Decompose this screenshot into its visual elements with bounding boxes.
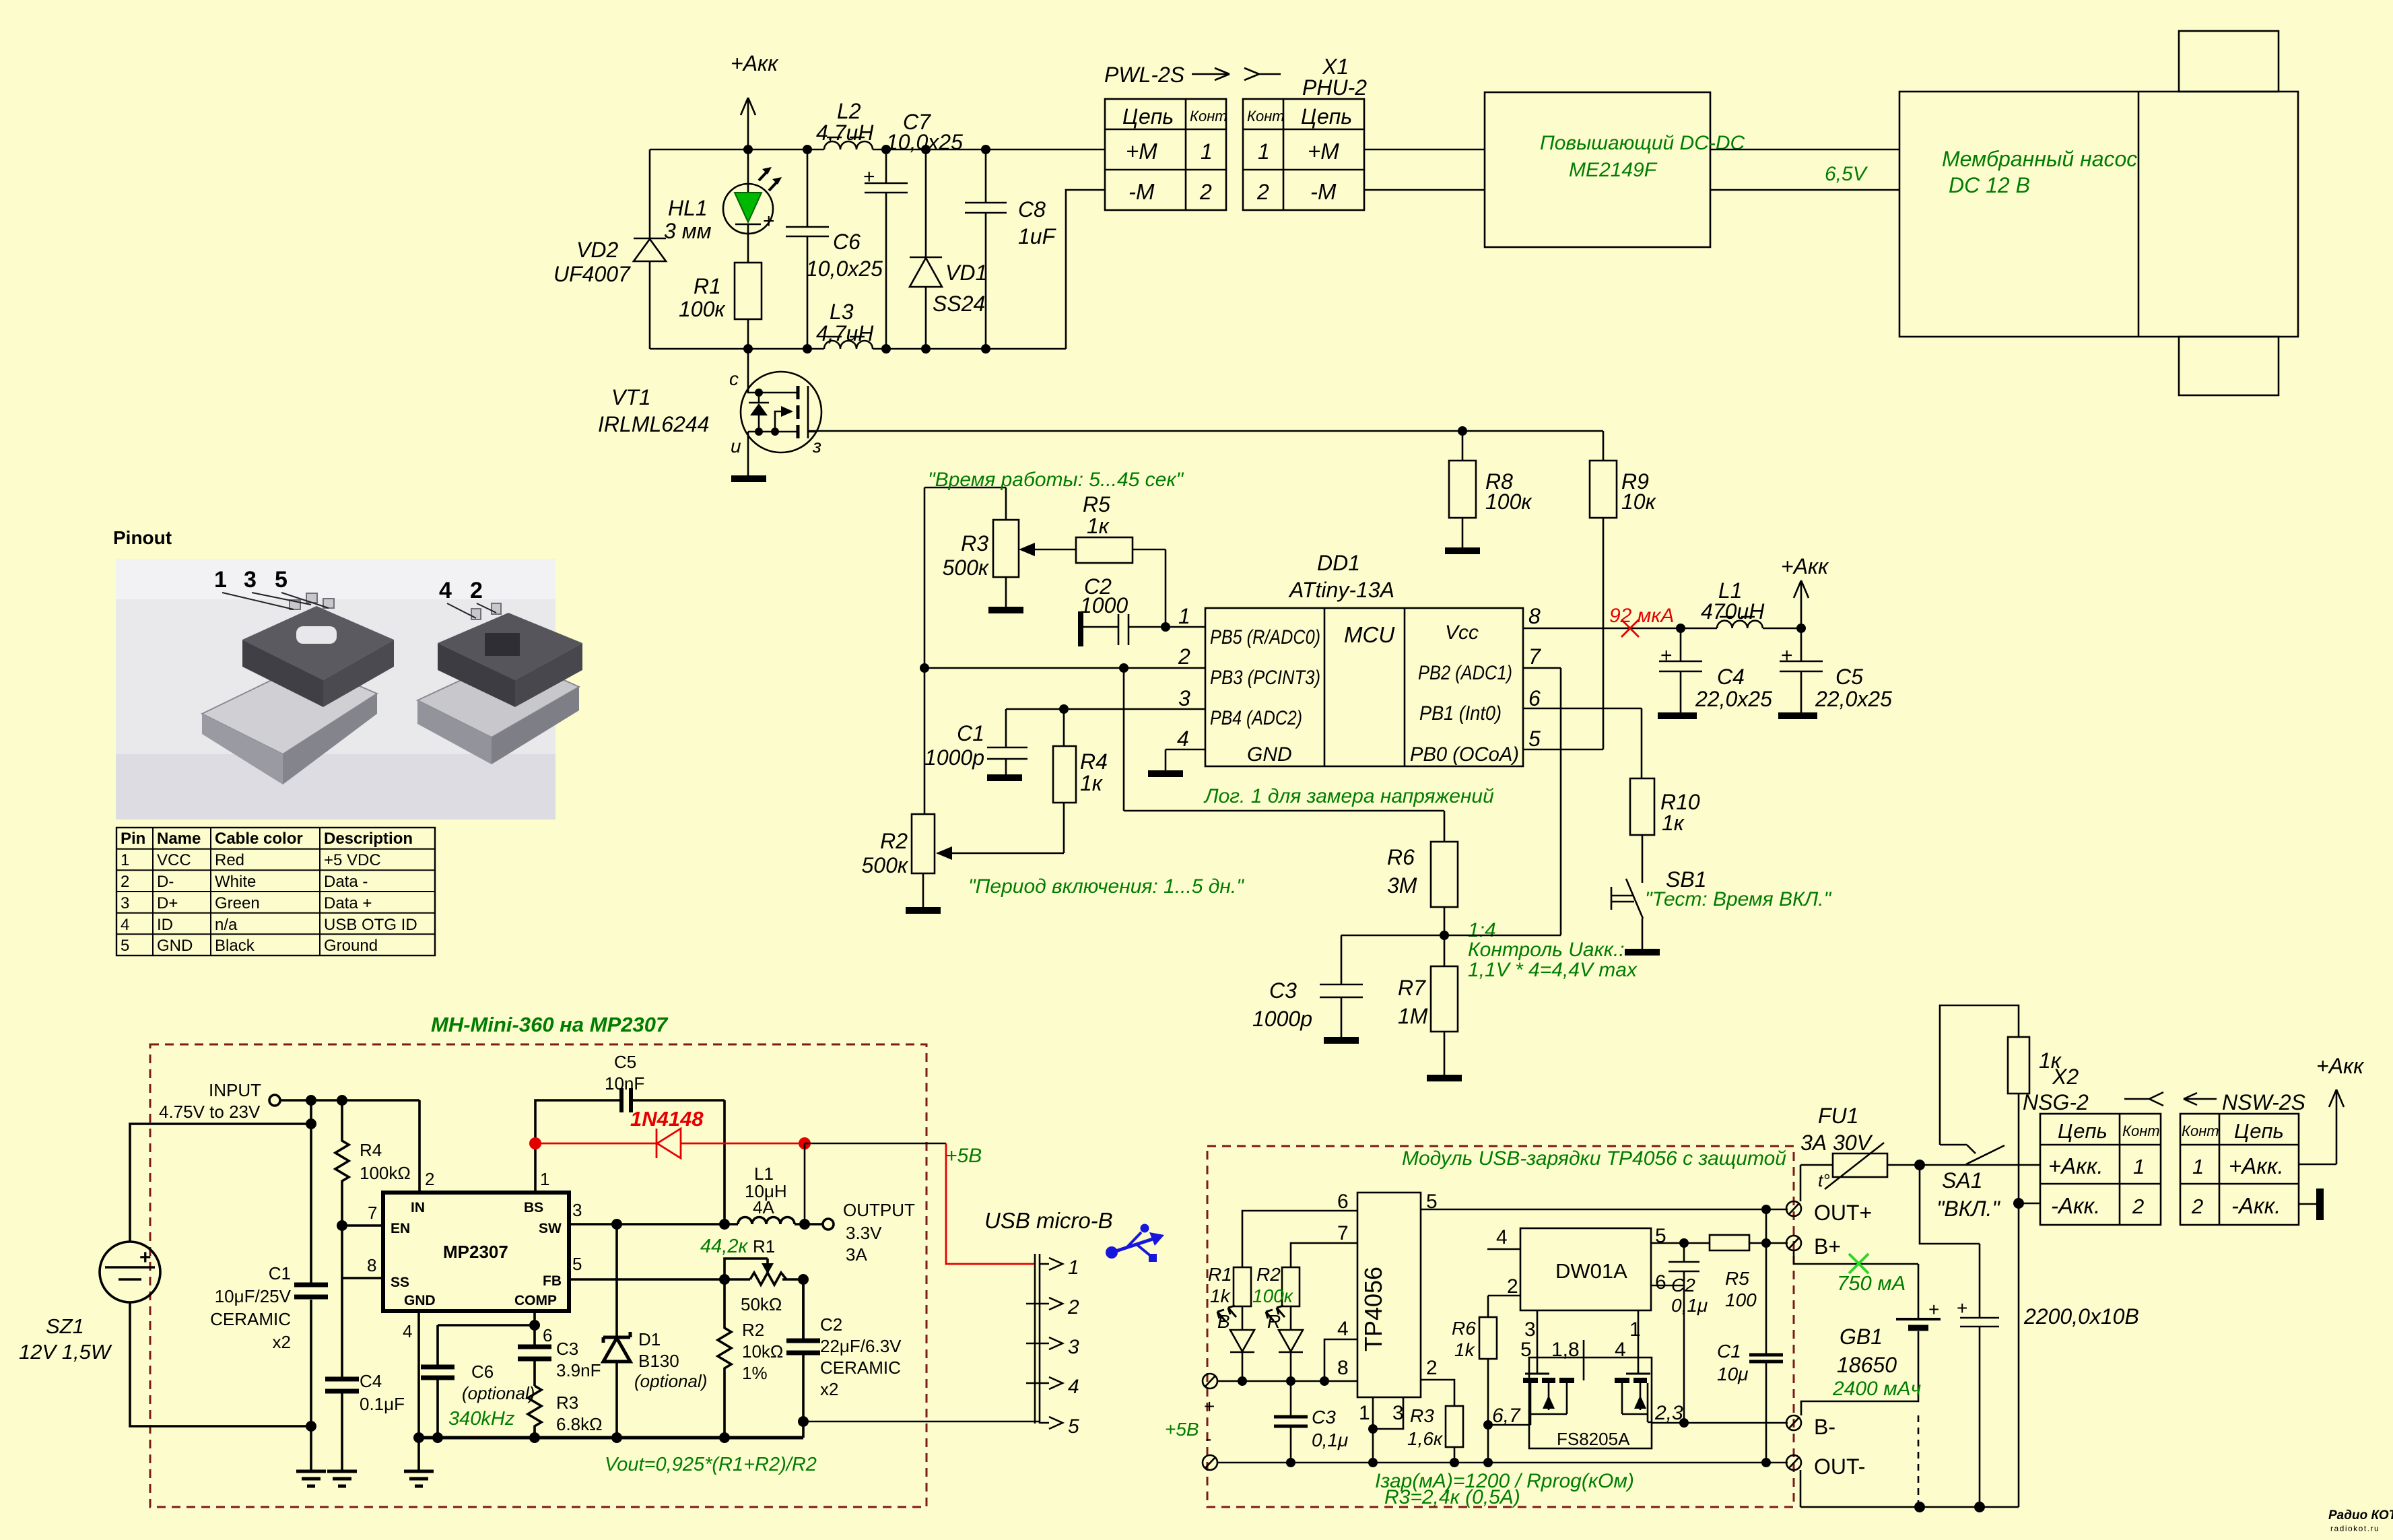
terminal OUT- — [1786, 1454, 1865, 1479]
capacitor C5 22,0x25 — [1780, 628, 1892, 712]
wire MCU pin1 — [1128, 626, 1205, 628]
svg-text:R2: R2 — [1256, 1264, 1281, 1285]
wire pin7 to R2 — [1291, 1243, 1357, 1267]
ground GND pin (IEEE) — [404, 1471, 434, 1486]
potentiometer R2 500k — [862, 814, 935, 907]
svg-text:INPUT: INPUT — [209, 1080, 261, 1100]
svg-text:4: 4 — [1337, 1318, 1349, 1340]
svg-text:з: з — [812, 436, 821, 457]
svg-text:PB2 (ADC1): PB2 (ADC1) — [1418, 662, 1512, 684]
svg-text:1000p: 1000p — [1252, 1007, 1312, 1031]
svg-text:R1: R1 — [753, 1236, 775, 1257]
svg-text:R7: R7 — [1398, 976, 1426, 1000]
svg-text:Цепь: Цепь — [1301, 104, 1352, 129]
resistor R1 1k — [1208, 1264, 1251, 1306]
svg-text:Повышающий DC-DC: Повышающий DC-DC — [1540, 132, 1745, 154]
FS8205A box — [1529, 1358, 1652, 1449]
svg-text:+5B: +5B — [945, 1145, 982, 1167]
TP4056 chip — [1337, 1191, 1438, 1424]
svg-text:ME2149F: ME2149F — [1569, 159, 1658, 181]
svg-text:X2: X2 — [2052, 1065, 2079, 1089]
svg-text:10μF/25V: 10μF/25V — [215, 1286, 292, 1306]
dashed border MP2307 module — [150, 1044, 926, 1507]
resistor R8 100k — [1449, 426, 1532, 547]
svg-text:Vcc: Vcc — [1445, 622, 1479, 644]
net +Akk (top left power arrow) — [731, 51, 779, 149]
svg-text:Name: Name — [157, 830, 201, 848]
svg-text:ATtiny-13A: ATtiny-13A — [1288, 578, 1394, 602]
svg-text:2: 2 — [2132, 1195, 2144, 1218]
svg-text:Конт: Конт — [1190, 108, 1227, 125]
svg-text:6,5V: 6,5V — [1825, 163, 1868, 185]
svg-text:VD2: VD2 — [576, 238, 618, 262]
resistor R2 10k zigzag — [718, 1279, 783, 1438]
wire OUT+ up to fuse — [1800, 1165, 1802, 1201]
svg-text:2: 2 — [1256, 180, 1269, 204]
svg-text:3М: 3М — [1387, 873, 1417, 898]
inductor L2 4,7uH — [816, 99, 874, 149]
svg-text:6: 6 — [1337, 1191, 1349, 1213]
svg-text:radiokot.ru: radiokot.ru — [2330, 1524, 2380, 1533]
svg-text:GND: GND — [404, 1293, 436, 1308]
ground C1 — [987, 774, 1022, 781]
svg-text:Black: Black — [215, 937, 255, 955]
svg-text:PB3 (PCINT3): PB3 (PCINT3) — [1210, 667, 1320, 689]
svg-text:1: 1 — [1201, 139, 1213, 164]
svg-text:CERAMIC: CERAMIC — [820, 1358, 901, 1378]
svg-text:SS: SS — [391, 1275, 409, 1290]
svg-text:R3=2,4к (0,5А): R3=2,4к (0,5А) — [1384, 1486, 1520, 1508]
svg-text:500к: 500к — [943, 556, 990, 580]
svg-text:OUTPUT: OUTPUT — [843, 1200, 915, 1220]
wires pins 1,3 — [1373, 1397, 1403, 1463]
svg-text:OUT-: OUT- — [1814, 1454, 1865, 1479]
svg-text:+Акк.: +Акк. — [2229, 1153, 2284, 1178]
svg-text:1: 1 — [540, 1169, 549, 1189]
wire pin6 to R1 — [1242, 1211, 1357, 1267]
svg-text:R6: R6 — [1387, 845, 1415, 869]
pinout photo background — [116, 559, 582, 819]
potentiometer R3 500k — [943, 488, 1077, 607]
svg-text:Мембранный насос: Мембранный насос — [1942, 147, 2137, 171]
ground R7 — [1427, 1075, 1462, 1081]
svg-text:1: 1 — [1178, 604, 1190, 628]
wire VT1 gate to R8/R9 — [808, 430, 1603, 432]
svg-text:3.9nF: 3.9nF — [556, 1360, 601, 1380]
svg-text:n/a: n/a — [215, 916, 238, 934]
node 1:4 — [1440, 931, 1449, 940]
svg-text:0,1μ: 0,1μ — [1671, 1295, 1708, 1316]
svg-text:0,1μ: 0,1μ — [1312, 1430, 1348, 1450]
USB pin 1 — [1040, 1257, 1079, 1279]
connector table X1 PHU-2 — [1243, 99, 1364, 210]
svg-text:MCU: MCU — [1344, 622, 1394, 647]
svg-text:COMP: COMP — [514, 1293, 557, 1308]
wire pin2 down to log1 line — [1124, 668, 1444, 842]
svg-text:22μF/6.3V: 22μF/6.3V — [820, 1336, 902, 1356]
svg-text:R1: R1 — [1208, 1264, 1232, 1285]
wire GND pin4 — [417, 1311, 420, 1471]
junction dots bottom rail — [743, 344, 753, 354]
photo right connector — [417, 603, 582, 764]
svg-text:44,2к: 44,2к — [700, 1236, 748, 1257]
svg-text:3: 3 — [244, 567, 257, 593]
resistor R3 1,6k — [1407, 1405, 1463, 1463]
capacitor C4 22,0x25 — [1659, 624, 1772, 712]
capacitor C3 0,1u — [1274, 1381, 1348, 1463]
capacitor C5 10nF — [605, 1052, 724, 1224]
connector PWL-2S label — [1104, 63, 1229, 87]
svg-text:L2: L2 — [837, 99, 861, 123]
svg-text:C2: C2 — [1671, 1275, 1695, 1296]
LED HL1 — [664, 149, 782, 263]
svg-text:3А 30V: 3А 30V — [1800, 1131, 1873, 1155]
resistor R5 1k — [1076, 492, 1170, 632]
svg-text:IN: IN — [411, 1200, 425, 1215]
svg-text:UF4007: UF4007 — [553, 262, 631, 286]
svg-text:100к: 100к — [1485, 490, 1532, 514]
net +Akk at L1 — [1781, 554, 1829, 633]
capacitor C8 1uF — [965, 149, 1057, 349]
wires DW01A to FS gates — [1537, 1310, 1638, 1380]
svg-text:PB1 (Int0): PB1 (Int0) — [1419, 702, 1502, 725]
ground C4 (IEEE) — [327, 1471, 357, 1486]
svg-text:Конт: Конт — [1247, 108, 1285, 125]
svg-text:ID: ID — [157, 916, 173, 934]
svg-text:+5В: +5В — [1165, 1419, 1199, 1440]
svg-text:USB micro-B: USB micro-B — [984, 1208, 1113, 1233]
svg-text:C3: C3 — [556, 1339, 578, 1359]
svg-text:R2: R2 — [742, 1320, 764, 1340]
wire to +5V node — [804, 1143, 806, 1224]
wire pin5 OUT+ — [1421, 1209, 1788, 1211]
svg-text:SW: SW — [539, 1221, 562, 1236]
wall terminal -Akk — [2299, 1189, 2324, 1220]
svg-text:SA1: SA1 — [1942, 1168, 1982, 1193]
wire 6,7 — [1483, 1405, 1530, 1430]
svg-text:10,0x25: 10,0x25 — [806, 257, 883, 281]
resistor R6 3M — [1387, 842, 1458, 935]
wire -M branch — [1066, 190, 1105, 349]
svg-text:SS24: SS24 — [933, 292, 985, 316]
svg-text:1: 1 — [1258, 139, 1270, 164]
connector table NSW-2S — [2180, 1114, 2299, 1225]
capacitor C2 0,1u — [1651, 1243, 1708, 1423]
svg-text:7: 7 — [368, 1203, 377, 1223]
wire +5V rail to pin8 — [1217, 1380, 1357, 1382]
bottom rail TP4056 — [1217, 1462, 1788, 1464]
capacitor C6 optional — [421, 1311, 535, 1438]
svg-text:+Акк: +Акк — [1781, 554, 1829, 578]
svg-text:Red: Red — [215, 851, 244, 869]
svg-text:C2: C2 — [820, 1314, 842, 1335]
svg-text:2: 2 — [470, 578, 483, 603]
svg-text:R3: R3 — [961, 531, 988, 556]
svg-text:3: 3 — [1178, 686, 1190, 710]
svg-text:1: 1 — [1359, 1402, 1370, 1424]
svg-text:+: + — [763, 210, 775, 232]
ground R8 — [1445, 547, 1480, 554]
solar cell SZ1 — [19, 1100, 316, 1426]
wire bottom rail — [650, 348, 1066, 350]
watermark — [2328, 1508, 2393, 1533]
svg-text:NSG-2: NSG-2 — [2023, 1090, 2089, 1114]
svg-text:C6: C6 — [471, 1362, 494, 1382]
wire 2,3 to B- — [1648, 1402, 1788, 1428]
capacitor C4 0.1uF — [325, 1226, 405, 1471]
inductor L3 4,7uH — [816, 300, 874, 349]
svg-text:+М: +М — [1126, 139, 1157, 164]
connector X1 PHU-2 label — [1244, 55, 1367, 100]
thick ground rail — [419, 1436, 803, 1440]
svg-text:4,7uH: 4,7uH — [816, 321, 874, 345]
potentiometer R1 44,2k — [700, 1236, 786, 1314]
svg-text:8: 8 — [1528, 604, 1541, 628]
svg-text:C1: C1 — [1717, 1341, 1741, 1362]
svg-text:1: 1 — [2192, 1155, 2204, 1178]
svg-text:и: и — [731, 436, 741, 457]
svg-text:1000p: 1000p — [924, 745, 984, 770]
svg-text:2,3: 2,3 — [1654, 1402, 1683, 1424]
svg-text:Цепь: Цепь — [2234, 1119, 2284, 1143]
svg-text:B130: B130 — [638, 1351, 679, 1371]
svg-text:R1: R1 — [694, 274, 721, 298]
ground R2 — [906, 907, 941, 914]
svg-text:4.75V to 23V: 4.75V to 23V — [159, 1102, 261, 1122]
svg-text:5: 5 — [572, 1254, 582, 1274]
svg-text:340kHz: 340kHz — [448, 1408, 515, 1430]
ground MCU pin4 — [1148, 770, 1183, 777]
svg-text:R3: R3 — [556, 1393, 578, 1413]
connector mate symbols — [2124, 1092, 2163, 1106]
svg-text:B-: B- — [1814, 1415, 1835, 1439]
battery GB1 18650 — [1794, 1250, 1941, 1415]
svg-text:C3: C3 — [1312, 1407, 1336, 1428]
svg-text:BS: BS — [524, 1200, 543, 1215]
svg-text:CERAMIC: CERAMIC — [210, 1309, 291, 1329]
svg-text:1к: 1к — [1080, 771, 1104, 795]
terminal OUT+ — [1786, 1201, 1872, 1225]
svg-text:1М: 1М — [1398, 1004, 1428, 1028]
svg-text:4: 4 — [439, 578, 452, 603]
svg-text:+: + — [1957, 1298, 1967, 1318]
capacitor C3 3.9nF + resistor R3 — [518, 1320, 603, 1438]
svg-text:x2: x2 — [820, 1379, 838, 1399]
svg-text:Pinout: Pinout — [113, 527, 172, 548]
svg-text:+: + — [1660, 644, 1673, 667]
ground C3 — [1324, 1037, 1359, 1044]
svg-text:-Акк.: -Акк. — [2051, 1193, 2100, 1218]
wire top rail +M — [650, 149, 1105, 151]
svg-text:10kΩ: 10kΩ — [742, 1341, 783, 1362]
svg-text:C6: C6 — [833, 230, 861, 254]
svg-text:D+: D+ — [157, 894, 178, 912]
svg-text:3 мм: 3 мм — [664, 219, 712, 243]
svg-text:FU1: FU1 — [1818, 1104, 1858, 1128]
svg-text:t°: t° — [1818, 1170, 1830, 1191]
svg-text:DC 12 В: DC 12 В — [1949, 173, 2030, 197]
svg-text:92 мкА: 92 мкА — [1609, 605, 1674, 627]
svg-text:VT1: VT1 — [611, 385, 651, 409]
svg-text:18650: 18650 — [1837, 1353, 1897, 1377]
svg-text:VCC: VCC — [157, 851, 191, 869]
red wire +5B to USB pin1 — [946, 1143, 1035, 1264]
svg-text:B: B — [1217, 1311, 1230, 1332]
capacitor C2 1000 with touch bar — [1078, 574, 1128, 646]
capacitor C7 10,0x25 — [863, 110, 963, 349]
svg-text:GND: GND — [1247, 743, 1292, 766]
svg-text:4,7uH: 4,7uH — [816, 121, 874, 145]
svg-text:White: White — [215, 873, 256, 891]
svg-text:7: 7 — [1337, 1222, 1349, 1244]
wire FB pin5 — [569, 1279, 803, 1342]
LED R — [1266, 1306, 1303, 1381]
svg-text:PB4 (ADC2): PB4 (ADC2) — [1210, 707, 1302, 729]
capacitor C6 10,0x25 — [763, 149, 883, 349]
OUTPUT terminal — [823, 1200, 915, 1265]
svg-text:+М: +М — [1308, 139, 1339, 164]
svg-text:PB5 (R/ADC0): PB5 (R/ADC0) — [1210, 626, 1320, 648]
svg-text:R4: R4 — [1080, 749, 1108, 774]
svg-text:8: 8 — [1337, 1357, 1349, 1379]
fuse FU1 3A 30V — [1800, 1104, 1887, 1191]
svg-text:x2: x2 — [273, 1332, 291, 1352]
connector table X2 NSG-2 — [2040, 1114, 2161, 1225]
wire node to C3 — [1341, 935, 1444, 984]
svg-text:R5: R5 — [1725, 1268, 1749, 1289]
svg-text:L3: L3 — [830, 300, 854, 324]
USB pin 5 / wire from MP2307 gnd — [803, 1415, 1079, 1438]
svg-text:1000: 1000 — [1080, 593, 1128, 617]
svg-text:2: 2 — [1199, 180, 1212, 204]
svg-text:5: 5 — [121, 937, 129, 955]
svg-text:"Время работы: 5...45 сек": "Время работы: 5...45 сек" — [928, 469, 1184, 491]
svg-text:2200,0x10В: 2200,0x10В — [2023, 1304, 2139, 1329]
wire DW01A pin4 stub — [1487, 1248, 1520, 1250]
USB connector body double line — [1035, 1254, 1040, 1424]
ground C4 — [1658, 712, 1697, 719]
svg-text:2: 2 — [425, 1169, 434, 1189]
inductor L1 10uH 4A — [738, 1164, 795, 1224]
svg-text:EN: EN — [391, 1221, 410, 1236]
svg-text:1N4148: 1N4148 — [630, 1107, 704, 1131]
connector X2 NSG-2 label — [2023, 1065, 2089, 1114]
svg-text:3: 3 — [121, 894, 129, 912]
resistor R9 10k — [1590, 431, 1657, 749]
svg-text:3: 3 — [1392, 1402, 1404, 1424]
connector table PWL-2S — [1105, 99, 1227, 210]
svg-text:1%: 1% — [742, 1363, 768, 1383]
pushbutton SB1 — [1611, 867, 1832, 949]
svg-text:R2: R2 — [880, 829, 908, 853]
wire X1 to DC-DC +M — [1364, 149, 1485, 151]
DW01A chip — [1496, 1225, 1666, 1341]
svg-text:750 мА: 750 мА — [1837, 1271, 1906, 1295]
svg-text:Конт: Конт — [2182, 1123, 2219, 1139]
terminal + input — [1203, 1374, 1217, 1417]
resistor R5 100 — [1710, 1235, 1788, 1310]
svg-text:100kΩ: 100kΩ — [360, 1163, 411, 1183]
wire DC-DC to pump 6,5V top — [1710, 149, 1899, 151]
ground C5 — [1778, 712, 1817, 719]
svg-text:R: R — [1267, 1311, 1281, 1332]
diode D1 B130 — [603, 1224, 707, 1438]
svg-text:50kΩ: 50kΩ — [741, 1294, 782, 1314]
svg-text:6: 6 — [1528, 686, 1541, 710]
wire MCU pin2 — [924, 667, 1205, 669]
svg-text:C5: C5 — [614, 1052, 636, 1072]
svg-text:B+: B+ — [1814, 1234, 1841, 1259]
svg-text:Конт: Конт — [2122, 1123, 2160, 1139]
terminal B- — [1786, 1415, 1835, 1439]
svg-text:2400 мАч: 2400 мАч — [1832, 1378, 1921, 1400]
svg-text:1,8: 1,8 — [1551, 1339, 1580, 1361]
svg-text:C3: C3 — [1269, 978, 1297, 1003]
svg-text:Vout=0,925*(R1+R2)/R2: Vout=0,925*(R1+R2)/R2 — [605, 1454, 817, 1475]
svg-text:5: 5 — [1520, 1339, 1532, 1361]
capacitor C1 input 10uF/25V — [210, 1124, 328, 1471]
svg-text:Лог. 1 для замера напряжений: Лог. 1 для замера напряжений — [1203, 785, 1494, 807]
svg-text:4A: 4A — [753, 1197, 774, 1217]
svg-text:Модуль USB-зарядки ТР4056 с за: Модуль USB-зарядки ТР4056 с защитой — [1402, 1147, 1786, 1170]
svg-text:6.8kΩ: 6.8kΩ — [556, 1414, 603, 1434]
svg-text:7: 7 — [1528, 644, 1541, 669]
svg-text:HL1: HL1 — [668, 196, 708, 220]
svg-text:Cable color: Cable color — [215, 830, 303, 848]
svg-text:1,1V * 4=4,4V max: 1,1V * 4=4,4V max — [1468, 959, 1638, 981]
svg-text:+Акк.: +Акк. — [2048, 1153, 2103, 1178]
MP2307 chip — [367, 1169, 582, 1341]
resistor R10 1k — [1630, 778, 1700, 883]
ground R3 — [988, 607, 1023, 613]
svg-text:C5: C5 — [1835, 665, 1863, 689]
svg-text:FS8205A: FS8205A — [1557, 1429, 1630, 1449]
svg-text:100к: 100к — [679, 297, 726, 321]
svg-text:+Акк: +Акк — [731, 51, 779, 75]
svg-text:3: 3 — [1068, 1336, 1079, 1358]
svg-text:GND: GND — [157, 937, 193, 955]
svg-text:6,7: 6,7 — [1492, 1405, 1521, 1427]
svg-text:1,6к: 1,6к — [1407, 1428, 1444, 1449]
USB pin table — [116, 828, 435, 956]
svg-text:"Период включения: 1...5 дн.": "Период включения: 1...5 дн." — [968, 875, 1244, 898]
resistor R1 100k — [679, 263, 762, 349]
svg-text:+Акк: +Акк — [2316, 1054, 2365, 1078]
svg-text:C4: C4 — [360, 1371, 382, 1391]
svg-text:1: 1 — [1068, 1257, 1079, 1279]
svg-text:Цепь: Цепь — [1122, 104, 1174, 129]
svg-text:3.3V: 3.3V — [846, 1223, 882, 1243]
svg-text:3: 3 — [1524, 1318, 1536, 1341]
svg-text:2: 2 — [1067, 1296, 1079, 1318]
svg-text:(optional): (optional) — [462, 1383, 535, 1403]
svg-text:R4: R4 — [360, 1140, 382, 1160]
svg-text:-М: -М — [1128, 179, 1155, 204]
svg-text:1: 1 — [121, 851, 129, 869]
svg-text:PHU-2: PHU-2 — [1302, 75, 1367, 100]
svg-text:USB OTG ID: USB OTG ID — [324, 916, 417, 934]
svg-text:Цепь: Цепь — [2058, 1119, 2108, 1143]
svg-text:R3: R3 — [1410, 1405, 1434, 1426]
svg-text:3A: 3A — [846, 1244, 867, 1265]
svg-text:1k: 1k — [1454, 1339, 1476, 1360]
wire pin4 — [1324, 1339, 1357, 1381]
svg-text:-: - — [1205, 1428, 1211, 1449]
capacitor C1 1000p — [924, 709, 1027, 774]
svg-text:6: 6 — [543, 1325, 552, 1345]
bottom rail right — [1800, 1470, 2019, 1507]
svg-text:Data +: Data + — [324, 894, 372, 912]
